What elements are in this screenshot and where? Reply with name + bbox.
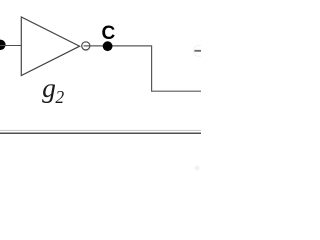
faint upper rule (0, 129, 201, 131)
wire bubble to corner, down, right (84, 46, 201, 91)
svg-text:C: C (102, 23, 116, 44)
faint clipped bubble at right edge (193, 45, 204, 56)
faint speck bottom right (195, 166, 200, 171)
inverter bubble (82, 42, 90, 50)
inverter g2 triangle (21, 17, 79, 76)
dark lower rule (0, 132, 201, 134)
node C dot (103, 41, 113, 51)
node input dot (0, 40, 6, 50)
clipped wire stub at right edge (194, 50, 201, 52)
wire input to gate (0, 45, 21, 47)
